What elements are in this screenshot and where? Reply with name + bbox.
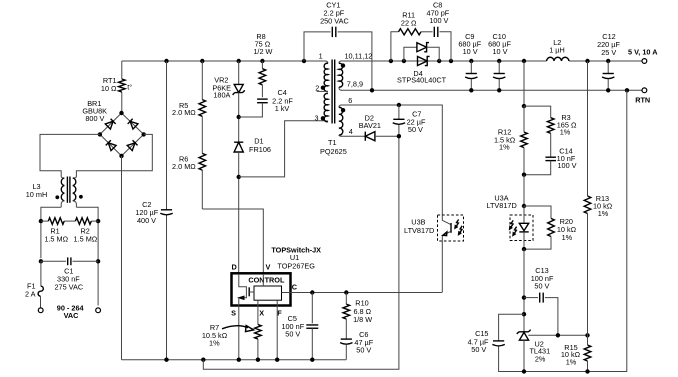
wire B+ top rail (primary) — [122, 60, 321, 62]
resistor R13 10 kOhm from 5V — [587, 61, 589, 196]
capacitor C10 680 uF 10 V — [498, 61, 500, 74]
wire R1/R2 row — [41, 220, 48, 222]
node pin3 polarity dot — [321, 116, 325, 120]
wire S pin — [238, 306, 240, 360]
transformer T1 primary pin 2 stub — [317, 90, 328, 92]
svg-text:10 V: 10 V — [492, 47, 507, 56]
resistor R1 1.5 MOhm — [48, 218, 64, 225]
terminal AC input right — [96, 308, 101, 313]
U1 internal MOSFET — [239, 274, 247, 298]
node C-pin junction dots — [310, 290, 314, 294]
svg-text:C: C — [292, 282, 298, 291]
transformer T1 primary winding lower (pins 2-3) — [324, 93, 328, 121]
wire C pin out of control block — [282, 292, 291, 294]
node LED cathode — [522, 247, 526, 251]
wire BR1 AC left to L3 left winding — [40, 134, 100, 178]
inductor L3 right winding — [73, 178, 76, 201]
svg-text:1: 1 — [319, 51, 323, 60]
wire C1 row — [41, 260, 66, 262]
capacitor C12 220 uF 25 V — [607, 61, 609, 74]
svg-text:1%: 1% — [562, 233, 573, 242]
svg-text:LTV817D: LTV817D — [404, 226, 434, 235]
svg-text:F: F — [277, 309, 282, 318]
node pin2 polarity dot — [321, 86, 325, 90]
wire BR1 AC right to L3 right winding — [73, 134, 153, 178]
wire TL431 ref to divider — [528, 334, 587, 336]
L3 core lines — [66, 177, 68, 203]
capacitor C1 330 nF X2 — [67, 257, 69, 265]
wire CY1 right to secondary return — [338, 32, 372, 90]
svg-text:1%: 1% — [566, 357, 577, 366]
node B+ junction dots on top rail — [164, 59, 168, 63]
svg-text:2%: 2% — [535, 354, 546, 363]
node sense top — [522, 104, 526, 108]
resistor R8 75 Ohm 1/2 W — [259, 69, 266, 85]
node clamp/C4 junction — [237, 115, 241, 119]
wire output sense branch — [523, 61, 525, 106]
wire CY1 branch left — [304, 32, 331, 61]
svg-text:800 V: 800 V — [85, 114, 104, 123]
node RTN rail dots — [370, 88, 374, 92]
diode D4 upper STPS40L40CT — [404, 47, 417, 61]
wire clamp branch top — [238, 61, 240, 84]
node D2 cathode junction — [397, 134, 401, 138]
svg-text:1.5 MΩ: 1.5 MΩ — [74, 235, 98, 244]
node C13 branch — [522, 295, 526, 299]
svg-text:50 V: 50 V — [356, 345, 371, 354]
svg-text:VAC: VAC — [64, 311, 80, 320]
svg-text:T1: T1 — [328, 138, 337, 147]
resistor R5 2.0 MOhm — [199, 100, 206, 117]
resistor R15 10 kOhm to return — [584, 345, 591, 361]
svg-text:2: 2 — [315, 83, 319, 92]
wire R8 to C4 — [261, 85, 263, 97]
node bottom rail dots — [522, 369, 526, 373]
svg-text:275 VAC: 275 VAC — [54, 283, 83, 292]
shunt regulator U2 TL431 — [517, 330, 531, 334]
svg-text:X: X — [259, 309, 264, 318]
node ref wire dots — [556, 333, 560, 337]
diode D1 FR106 — [234, 141, 243, 143]
svg-text:5 V, 10 A: 5 V, 10 A — [628, 48, 658, 57]
svg-text:7,8,9: 7,8,9 — [347, 80, 363, 89]
capacitor C2 120 uF 400 V electrolytic — [161, 209, 172, 211]
node sense bottom — [522, 173, 526, 177]
capacitor C5 100 nF 50 V — [311, 293, 313, 324]
svg-text:1%: 1% — [560, 128, 571, 137]
svg-text:RTN: RTN — [635, 96, 650, 105]
wire pin 4 to D2 — [341, 135, 365, 137]
wire secondary return bottom rail — [499, 90, 627, 371]
capacitor C7 22 uF 50 V electrolytic — [398, 105, 400, 119]
svg-text:1.5 MΩ: 1.5 MΩ — [44, 235, 68, 244]
svg-text:1%: 1% — [209, 338, 220, 347]
svg-text:1%: 1% — [499, 143, 510, 152]
svg-text:S: S — [231, 308, 236, 317]
resistor R6 2.0 MOhm — [199, 153, 206, 170]
wire BR1 negative to primary return rail — [121, 156, 123, 360]
diode D4 lower STPS40L40CT — [418, 57, 428, 66]
capacitor C9 680 uF 10 V — [470, 61, 472, 74]
capacitor C8 470 pF 100 V — [433, 27, 435, 37]
wire secondary return rail RTN — [341, 89, 642, 91]
svg-text:CONTROL: CONTROL — [248, 275, 285, 284]
svg-text:t°: t° — [127, 83, 132, 92]
svg-text:180A: 180A — [213, 90, 230, 99]
transformer T1 primary winding upper (pins 1-2) — [321, 61, 328, 63]
svg-text:1/8 W: 1/8 W — [353, 315, 372, 324]
resistor R7 10.5 kOhm on X pin — [255, 325, 262, 340]
capacitor C13 100 nF 50 V — [524, 297, 538, 299]
wire sense to opto LED — [523, 175, 525, 206]
zener VR2 P6KE180A — [234, 84, 243, 92]
inductor L2 1 uH — [547, 57, 569, 61]
wire L3 left winding bottom to left input rail — [41, 201, 64, 258]
capacitor C14 10 nF 100 V — [545, 156, 556, 158]
node input rail dots — [39, 219, 43, 223]
resistor R20 10 kOhm parallel LED — [524, 206, 551, 218]
L3 polarity dots — [55, 195, 59, 199]
svg-text:1 µH: 1 µH — [549, 45, 565, 54]
node source rail junction dots — [164, 358, 168, 362]
diode BR1 bottom-right — [127, 140, 137, 150]
thermistor RT1 10 Ohm — [119, 79, 126, 92]
resistor R12 1.5 kOhm — [523, 106, 525, 132]
diode D2 BAV21 — [364, 132, 366, 141]
svg-text:2.0 MΩ: 2.0 MΩ — [172, 108, 196, 117]
svg-text:2 A: 2 A — [25, 289, 36, 298]
node secondary rail dots — [389, 59, 393, 63]
svg-text:3: 3 — [315, 114, 319, 123]
resistor R10 6.8 Ohm 1/8 W — [345, 293, 347, 305]
diode BR1 bottom-left — [106, 140, 116, 150]
U1 control block — [254, 286, 282, 300]
svg-text:22 Ω: 22 Ω — [401, 18, 417, 27]
wire LED cathode down to TL431 — [523, 249, 525, 332]
U3A light arrows — [511, 220, 513, 227]
capacitor C4 2.2 nF 1 kV — [257, 98, 268, 100]
svg-text:100 V: 100 V — [557, 161, 576, 170]
node bias winding polarity dot — [341, 108, 345, 112]
capacitor CY1 2.2 pF 250 VAC Y-cap — [331, 27, 333, 37]
svg-text:250 VAC: 250 VAC — [320, 16, 349, 25]
terminal AC input left — [38, 308, 43, 313]
svg-text:6: 6 — [348, 96, 352, 105]
wire L3 right winding bottom to right input rail — [73, 201, 98, 306]
transformer T1 secondary bias winding (pins 6 / 4) — [339, 105, 342, 107]
terminal 5V output — [642, 59, 647, 64]
wire V pin into control block — [262, 274, 264, 286]
svg-text:50 V: 50 V — [471, 345, 486, 354]
svg-text:1/2 W: 1/2 W — [253, 47, 272, 56]
wire D1 anode to drain node — [238, 152, 240, 273]
svg-text:FR106: FR106 — [249, 145, 271, 154]
wire pin 6 to opto collector — [341, 105, 442, 215]
transformer T1 core — [331, 60, 333, 124]
op-amp U1 TOPSwitch box — [232, 273, 291, 305]
svg-text:D: D — [232, 263, 237, 272]
wire line-sense branch — [201, 61, 203, 100]
svg-text:STPS40L40CT: STPS40L40CT — [397, 75, 447, 84]
transformer T1 secondary winding upper (pins 10,11,12 / 7,8,9) — [339, 61, 342, 63]
wire drain node to transformer pin 3 — [239, 121, 328, 177]
svg-text:1 kV: 1 kV — [275, 104, 290, 113]
terminal RTN — [642, 88, 647, 93]
node drain junction — [237, 175, 241, 179]
svg-text:10 V: 10 V — [463, 47, 478, 56]
svg-text:25 V: 25 V — [601, 48, 616, 57]
resistor R3 165 Ohm branch — [524, 106, 551, 118]
capacitor C6 47 uF 50 V electrolytic — [345, 319, 347, 339]
svg-text:10 Ω: 10 Ω — [101, 84, 117, 93]
wire primary return (source) rail — [122, 359, 347, 361]
node C15 branch — [522, 312, 526, 316]
diode BR1 top-left — [105, 119, 115, 129]
wire RT1 branch — [121, 61, 123, 79]
svg-text:2.0 MΩ: 2.0 MΩ — [172, 162, 196, 171]
diode BR1 top-right — [128, 119, 138, 129]
inductor L3 10 mH common-mode choke left winding — [61, 178, 64, 201]
optocoupler U3A LTV817D LED — [510, 215, 533, 241]
svg-text:TOP267EG: TOP267EG — [277, 262, 315, 271]
fuse F1 2 A — [38, 286, 43, 296]
wire VR2 to D1 — [238, 93, 240, 143]
svg-text:10,11,12: 10,11,12 — [345, 51, 373, 60]
resistor R11 22 Ohm snubber — [391, 32, 399, 61]
wire C2 branch — [166, 61, 168, 210]
wire secondary output rail — [341, 60, 547, 62]
svg-text:V: V — [265, 263, 270, 272]
wire left input to fuse — [40, 261, 42, 286]
wire F pin — [276, 300, 278, 360]
wire C4 to clamp junction — [239, 103, 263, 117]
capacitor C15 4.7 uF 50 V electrolytic — [499, 314, 524, 341]
wire sense to V pin of U1 — [202, 209, 263, 273]
resistor R2 1.5 MOhm — [75, 218, 91, 225]
svg-text:LTV817D: LTV817D — [486, 201, 516, 210]
R7 selection arrow — [222, 326, 248, 329]
svg-text:BAV21: BAV21 — [359, 121, 381, 130]
optocoupler U3B LTV817D phototransistor — [438, 215, 464, 241]
svg-text:400 V: 400 V — [137, 216, 156, 225]
node bias+ / C7 junction — [397, 103, 401, 107]
svg-text:100 V: 100 V — [429, 16, 448, 25]
svg-text:50 V: 50 V — [408, 125, 423, 134]
node secondary upper polarity dot — [341, 63, 345, 67]
wire R8 branch — [261, 61, 263, 69]
node LED anode — [522, 204, 526, 208]
bridge rectifier BR1 GBU8K diamond — [100, 113, 144, 156]
svg-text:1%: 1% — [598, 209, 609, 218]
U3B light arrows — [456, 220, 458, 227]
svg-text:50 V: 50 V — [534, 282, 549, 291]
wire fuse to terminal — [40, 296, 42, 308]
node BR1 vertices — [119, 111, 123, 115]
wire bias return to source rail — [203, 136, 399, 369]
svg-text:50 V: 50 V — [285, 330, 300, 339]
svg-text:10 mH: 10 mH — [26, 190, 48, 199]
wire CONTROL pin rail — [291, 292, 442, 294]
svg-text:4: 4 — [349, 127, 353, 136]
wire X pin — [257, 300, 259, 324]
svg-text:PQ2625: PQ2625 — [320, 147, 347, 156]
